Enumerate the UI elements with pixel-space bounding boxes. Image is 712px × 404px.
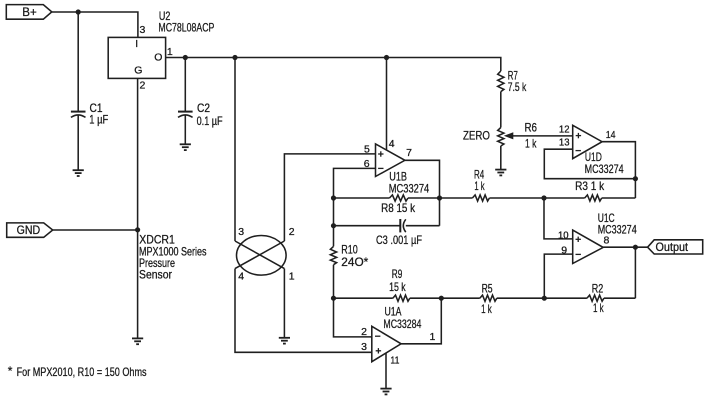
node output / R2 branch: [633, 245, 638, 250]
svg-text:14: 14: [606, 129, 616, 141]
wire +8V rail from U2 output to R7: [166, 58, 501, 72]
ground XDCR1 pin 1: [279, 338, 290, 344]
wire rail to C2: [184, 58, 186, 112]
svg-text:R8 15 k: R8 15 k: [381, 201, 416, 215]
wire C3 to U1B output corner: [406, 225, 440, 227]
svg-text:MC33274: MC33274: [389, 182, 430, 196]
capacitor C3: [400, 219, 406, 232]
svg-text:R5: R5: [482, 281, 493, 295]
svg-text:GND: GND: [17, 225, 40, 237]
svg-text:C3 .001 µF: C3 .001 µF: [376, 233, 422, 247]
svg-text:MC33284: MC33284: [383, 317, 421, 331]
svg-text:R3 1 k: R3 1 k: [575, 179, 605, 193]
svg-text:For MPX2010, R10 = 150 Ohms: For MPX2010, R10 = 150 Ohms: [17, 365, 147, 379]
ground C2: [180, 144, 191, 150]
resistor R10: [330, 246, 336, 264]
potentiometer ZERO R6: [498, 128, 514, 147]
ground U1A: [380, 389, 391, 395]
svg-text:ZERO: ZERO: [463, 129, 490, 143]
pressure sensor XDCR1 bridge symbol: [235, 236, 286, 276]
op-amp U1B: [376, 144, 405, 177]
svg-text:G: G: [134, 65, 142, 77]
svg-text:1 k: 1 k: [474, 179, 485, 193]
svg-text:2: 2: [361, 326, 367, 338]
svg-text:R9: R9: [392, 267, 403, 281]
svg-text:Output: Output: [656, 242, 689, 254]
wire U1A output pin 1: [401, 298, 441, 344]
resistor R3: [585, 195, 602, 201]
wire R8 to R4: [408, 197, 472, 199]
svg-text:5: 5: [364, 143, 370, 155]
node R4 / R3 / U1C pin 10 branch: [541, 195, 546, 200]
wire R2 to output branch: [604, 297, 636, 299]
node R10 / R9 / U1A pin 2: [331, 296, 336, 301]
svg-text:3: 3: [140, 24, 146, 36]
input tag B+: [6, 5, 52, 20]
resistor R2: [587, 295, 604, 301]
svg-text:R2: R2: [592, 281, 604, 295]
wire rail to XDCR1 pin 3: [234, 58, 236, 242]
wire U1D feedback pin 13: [544, 149, 635, 179]
resistor R8: [390, 195, 409, 201]
wire U1B pin 6 to feedback node: [334, 168, 376, 246]
node feedback / R8 line: [331, 195, 336, 200]
svg-text:*: *: [8, 364, 13, 378]
node feedback / C3 line: [331, 223, 336, 228]
wire junction to C1: [77, 12, 79, 111]
svg-text:MC33274: MC33274: [598, 222, 637, 236]
svg-text:4: 4: [238, 271, 244, 283]
svg-text:10: 10: [558, 229, 569, 241]
resistor R7: [498, 71, 504, 92]
wire U1A pin 11 to ground: [385, 353, 387, 389]
node B+ / C1 junction: [76, 9, 81, 14]
capacitor C1: [71, 112, 86, 118]
wire feedback node to C3: [334, 225, 401, 227]
node GND junction: [135, 227, 140, 232]
wire ZERO pot to ground: [500, 146, 502, 170]
op-amp U1A: [372, 326, 401, 361]
node R9 / U1A output: [439, 296, 444, 301]
ground C1: [73, 170, 84, 176]
resistor R5: [480, 295, 497, 301]
capacitor C2: [178, 112, 193, 118]
svg-text:3: 3: [238, 226, 244, 238]
svg-text:1: 1: [430, 331, 436, 343]
svg-text:1: 1: [167, 46, 173, 58]
svg-text:13: 13: [559, 137, 570, 149]
svg-text:1: 1: [289, 271, 295, 283]
wire U1A pin2 node to R9: [334, 297, 393, 299]
svg-text:2: 2: [289, 226, 295, 238]
svg-text:12: 12: [559, 123, 570, 135]
svg-text:MC78L08ACP: MC78L08ACP: [158, 21, 214, 35]
wire R9 to R5: [410, 297, 480, 299]
svg-text:O: O: [154, 52, 162, 64]
wire R4/R3 node to U1C pin 10: [544, 198, 573, 239]
wire feedback node to R8: [334, 197, 390, 199]
wire U1B output pin 7: [405, 160, 440, 225]
svg-text:15 k: 15 k: [389, 280, 406, 294]
svg-text:1 k: 1 k: [481, 302, 492, 316]
svg-text:0.1 µF: 0.1 µF: [197, 114, 223, 128]
wire R5 to R2: [497, 297, 587, 299]
ground ZERO pot: [495, 170, 506, 176]
svg-text:7.5 k: 7.5 k: [508, 80, 527, 94]
op-amp U1D: [573, 125, 602, 158]
voltage regulator U2 body: [108, 37, 165, 78]
wire U1D output pin 14: [602, 142, 635, 198]
wire XDCR1 pin 2 to U1B pin 5: [284, 154, 375, 241]
node rail / C2: [183, 55, 188, 60]
resistor R4: [472, 195, 489, 201]
wire output node down to R2: [634, 247, 636, 298]
svg-text:MC33274: MC33274: [585, 162, 624, 176]
svg-text:2: 2: [140, 80, 146, 92]
svg-text:11: 11: [390, 354, 399, 366]
ground GND rail: [132, 338, 143, 344]
node rail / U1B pin 4: [384, 55, 389, 60]
wire R3 to U1D output branch: [602, 197, 636, 199]
node U1D feedback / output: [633, 176, 638, 181]
wire pot wiper to U1D pin 12: [512, 135, 573, 137]
wire B+ to U2 pin 3: [52, 12, 138, 37]
svg-text:24O*: 24O*: [341, 255, 368, 269]
wire R7 to ZERO pot: [500, 92, 502, 128]
node rail / XDCR1 pin 3: [232, 55, 237, 60]
node U1B output / R8 line: [437, 195, 442, 200]
wire U2 pin 2 to ground rail: [137, 78, 139, 338]
svg-text:7: 7: [406, 147, 412, 159]
svg-text:R6: R6: [525, 120, 538, 134]
svg-text:3: 3: [361, 341, 367, 353]
wire XDCR1 pin 4 to U1A pin 3: [235, 269, 372, 353]
svg-text:I: I: [135, 39, 138, 50]
svg-text:B+: B+: [22, 7, 37, 19]
wire C1 to ground: [77, 115, 79, 170]
wire U1C output pin 8 to Output tag: [603, 246, 647, 248]
svg-text:1 k: 1 k: [525, 136, 537, 150]
wire XDCR1 pin 1 to ground: [283, 269, 285, 338]
svg-text:1 k: 1 k: [593, 301, 604, 315]
wire R4 to R3: [489, 197, 584, 199]
wire U1C pin 9 to R5/R2 node: [544, 254, 572, 298]
node R5 / R2 / U1C pin 9: [542, 296, 547, 301]
resistor R9: [393, 295, 410, 301]
svg-text:C2: C2: [197, 101, 210, 115]
wire GND tag to junction: [53, 229, 138, 231]
wire R10 to U1A pin 2: [334, 265, 372, 337]
svg-text:4: 4: [389, 138, 395, 150]
svg-text:1 µF: 1 µF: [89, 113, 108, 127]
svg-text:Sensor: Sensor: [139, 267, 172, 281]
output tag Output: [648, 240, 703, 254]
input tag GND: [7, 223, 53, 237]
wire rail to U1B pin 4: [386, 58, 388, 151]
wire C2 to ground: [184, 115, 186, 144]
op-amp U1C: [573, 230, 604, 263]
